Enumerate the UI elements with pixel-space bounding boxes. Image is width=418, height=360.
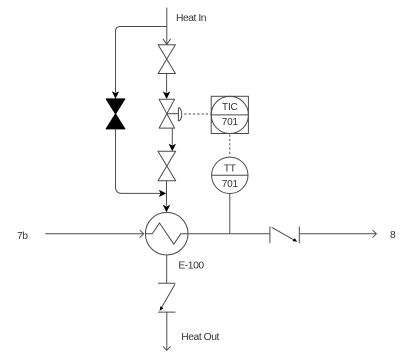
svg-text:7b: 7b xyxy=(17,231,28,242)
wire HX bottom to line break xyxy=(166,255,168,283)
dashed signal wire actuator to TIC xyxy=(184,113,211,115)
wire HX to line break (right) xyxy=(188,233,270,235)
control valve V2 xyxy=(159,99,175,128)
svg-text:Heat Out: Heat Out xyxy=(181,332,219,343)
wire from black valve down then right to junction xyxy=(116,129,161,194)
arrowhead filled into V3 xyxy=(169,144,176,152)
wire V2 to V3 (offset right) xyxy=(171,128,173,145)
arrowhead filled into black valve xyxy=(112,91,119,99)
wire V3 to heat exchanger xyxy=(166,181,168,206)
heat exchanger E-100 xyxy=(145,212,188,255)
wire TT to process line xyxy=(229,194,231,234)
arrowhead filled into HX top xyxy=(163,205,170,213)
line break symbol (bottom run) xyxy=(158,283,175,312)
wire branch to left (bypass) xyxy=(116,27,167,93)
arrowhead filled into V2 xyxy=(163,92,170,100)
wire V1 to V2 xyxy=(166,74,168,93)
dashed signal wire TIC to TT xyxy=(229,135,231,157)
actuator diaphragm xyxy=(178,108,181,121)
svg-text:TIC: TIC xyxy=(222,102,238,113)
svg-text:8: 8 xyxy=(390,230,396,241)
svg-text:701: 701 xyxy=(222,117,239,128)
arrowhead open at 8 xyxy=(373,230,377,237)
wire line break to 8 xyxy=(299,233,376,235)
instrument TIC 701 (shared display) xyxy=(211,96,248,133)
wire line break to Heat Out arrow xyxy=(166,312,168,350)
svg-text:TT: TT xyxy=(224,164,236,175)
wire 7b feed into HX xyxy=(45,233,143,235)
actuator stem xyxy=(167,113,179,115)
valve V3 xyxy=(158,151,176,181)
wire Heat In vertical into valve V1 xyxy=(166,8,168,45)
arrowhead open into HX left xyxy=(140,230,144,237)
arrowhead open Heat Out xyxy=(163,347,170,351)
arrowhead filled at junction (points right) xyxy=(159,190,167,197)
svg-text:E-100: E-100 xyxy=(178,261,204,272)
svg-text:Heat In: Heat In xyxy=(176,13,207,24)
valve (black, closed) on bypass xyxy=(106,99,125,129)
valve V1 xyxy=(158,45,175,74)
line break symbol (right run) xyxy=(270,226,299,243)
arrowhead open into V1 xyxy=(163,39,170,44)
instrument TT 701 xyxy=(212,157,248,193)
svg-text:701: 701 xyxy=(222,179,239,190)
